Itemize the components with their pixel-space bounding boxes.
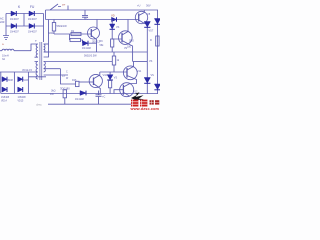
diode VD4	[29, 24, 34, 29]
transistor V8	[135, 11, 147, 23]
resistor R4 vertical	[111, 39, 114, 47]
svg-text:VD15: VD15	[18, 101, 24, 103]
wire bridge1 bottom	[6, 25, 44, 27]
svg-text:1N5408: 1N5408	[18, 97, 27, 99]
watermark logo bird	[131, 92, 144, 100]
svg-text:1N4007: 1N4007	[28, 18, 37, 21]
transformer primary winding lower	[36, 62, 38, 80]
svg-text:3DG: 3DG	[129, 40, 134, 43]
inductor L1 horizontal	[0, 49, 31, 50]
diode VD7 vertical	[110, 24, 115, 29]
svg-text:V8: V8	[147, 12, 151, 16]
diode VD6 horizontal on rail2	[112, 17, 117, 21]
svg-text:o+: o+	[62, 3, 66, 7]
capacitor C2 bottom	[96, 91, 102, 105]
transistor V9	[119, 31, 133, 45]
resistor R5 far right	[156, 36, 159, 46]
watermark text 电子	[150, 100, 160, 104]
transistor V12	[120, 83, 134, 97]
switch S1 glyph	[50, 4, 61, 10]
diode VD10 lower right	[144, 78, 150, 84]
wire right column x147.3	[146, 24, 148, 94]
transformer core	[40, 42, 42, 80]
wire secondary top lead	[44, 43, 49, 45]
svg-text:1N4007: 1N4007	[10, 18, 19, 21]
wire V12 base left	[114, 90, 119, 94]
transistor V11	[123, 66, 137, 80]
svg-text:1N5408: 1N5408	[1, 97, 10, 99]
svg-text:R: R	[150, 39, 152, 42]
wire second rail	[46, 19, 136, 21]
svg-text:VS: VS	[114, 77, 118, 80]
transistor V5	[88, 27, 100, 39]
svg-text:5408: 5408	[23, 80, 29, 82]
svg-text:VD14: VD14	[1, 101, 7, 103]
svg-text:www.dzsc.com: www.dzsc.com	[130, 107, 160, 110]
resistor R1 vertical 560k	[53, 20, 55, 23]
svg-text:1N4148: 1N4148	[75, 98, 84, 101]
wire bridge1 right vertical	[43, 14, 45, 43]
svg-text:5408: 5408	[8, 80, 14, 82]
diode VD15	[18, 87, 23, 92]
resistor R7 vertical base	[76, 81, 80, 86]
svg-text:VD12-15: VD12-15	[22, 69, 32, 72]
wire bridge1 top	[6, 13, 44, 15]
wire base feed y34	[54, 33, 91, 35]
svg-text:1N4007: 1N4007	[28, 31, 37, 34]
resistor R2 horizontal	[71, 32, 81, 35]
wire V9 collector up	[127, 20, 129, 27]
svg-text:VS: VS	[151, 74, 155, 77]
svg-text:560k: 560k	[48, 31, 54, 35]
wire bridge2 verticals	[1, 72, 29, 94]
transformer secondary winding upper	[44, 44, 49, 52]
diode VD2	[29, 11, 34, 16]
svg-text:560Ω/0.5W: 560Ω/0.5W	[84, 55, 97, 58]
wire H y72 right	[100, 71, 122, 73]
diode VD11 far lower right	[154, 84, 160, 90]
diode VD14	[2, 87, 7, 92]
diode VD13	[18, 77, 23, 82]
transistor V10	[89, 74, 102, 87]
transformer secondary winding lower	[44, 62, 46, 73]
svg-text:560k/1W: 560k/1W	[57, 24, 68, 28]
svg-text:36V: 36V	[146, 4, 151, 8]
wire junction down	[70, 34, 83, 43]
svg-text:3A: 3A	[2, 58, 5, 61]
wire VD5 to emitter node	[88, 42, 97, 44]
svg-text:C: C	[87, 17, 89, 20]
wire y75	[44, 74, 68, 76]
svg-text:VS: VS	[116, 26, 120, 29]
svg-text:V11: V11	[137, 70, 142, 73]
wire vertical x45.5	[45, 10, 47, 20]
resistor R6 vertical mid	[113, 52, 115, 56]
capacitor C1	[82, 10, 88, 20]
wire bridge1 mid vertical	[23, 14, 25, 27]
diode VD9 on x157.5	[154, 19, 160, 25]
wire vertical x48.5	[44, 20, 49, 58]
svg-text:dzsc: dzsc	[36, 103, 42, 107]
diode VD16 vertical	[107, 75, 113, 80]
transformer primary winding upper	[36, 44, 38, 57]
svg-text:1N4007: 1N4007	[10, 31, 19, 34]
wire V11 collector right segment	[133, 61, 148, 63]
svg-text:180: 180	[127, 46, 132, 49]
diode VD12	[2, 77, 7, 82]
wire VD7 leads	[112, 20, 118, 40]
wire H rail y61.5	[44, 61, 112, 63]
wire y68.7	[44, 68, 61, 70]
svg-text:1N4148: 1N4148	[82, 47, 91, 50]
wire bottom rail y104	[48, 103, 136, 105]
svg-text:VS7: VS7	[149, 30, 154, 33]
svg-text:T: T	[35, 39, 37, 43]
resistor R8 vertical bottom	[63, 90, 66, 98]
wire bridge1 left vertical	[5, 14, 7, 34]
resistor R10 vertical	[109, 81, 112, 88]
svg-text:FU: FU	[30, 5, 35, 9]
wire H y72 left (bridge top)	[0, 71, 37, 73]
wire bridge2 out	[28, 76, 46, 78]
svg-text:1W: 1W	[50, 93, 54, 96]
resistor R3 horizontal	[70, 38, 81, 41]
diode VD1	[11, 11, 16, 16]
svg-text:AC: AC	[0, 17, 4, 21]
svg-text:VD: VD	[111, 14, 115, 18]
wire H rail y52	[44, 51, 147, 53]
svg-text:220: 220	[0, 20, 5, 24]
svg-text:V10: V10	[103, 73, 108, 77]
diode VD3	[11, 24, 16, 29]
wire primary stub	[35, 57, 38, 61]
diode VD5	[83, 41, 89, 46]
svg-text:o.: o.	[2, 42, 5, 46]
wire top rail	[46, 9, 159, 11]
wire from +V down	[67, 6, 69, 11]
svg-text:R16: R16	[72, 79, 77, 82]
svg-text:+U: +U	[137, 4, 141, 8]
svg-text:+C: +C	[102, 96, 105, 99]
wire VD16 leads	[109, 72, 111, 94]
diode VD17 horizontal bottom	[80, 91, 86, 96]
diode VD8 on x147.3	[144, 22, 150, 28]
wire right column x157.5	[157, 10, 159, 94]
wire bottom y93.5	[1, 93, 158, 95]
ground symbol	[3, 33, 9, 40]
watermark text 佳佳	[131, 100, 147, 107]
wire L1 to transformer	[31, 44, 38, 51]
svg-text:VS: VS	[149, 60, 153, 63]
wire center vertical x60	[61, 69, 76, 84]
